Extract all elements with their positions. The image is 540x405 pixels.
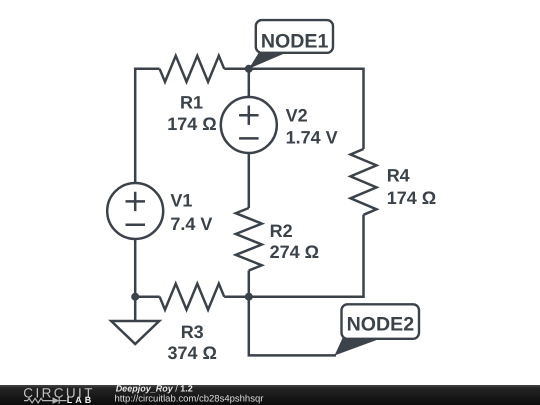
net flag NODE2 tail	[335, 336, 379, 356]
resistor R2	[236, 208, 262, 271]
wire top right (NODE1 to R4 top)	[249, 69, 364, 149]
V1 minus sign	[126, 223, 146, 226]
wire left vertical (top-left corner down to V1 top)	[135, 69, 159, 183]
wire R2 bottom to node NODE2	[248, 271, 251, 297]
svg-text:R1: R1	[180, 92, 203, 112]
wire R3 to node NODE2	[224, 295, 249, 298]
svg-text:7.4 V: 7.4 V	[170, 214, 212, 234]
wire bottom right (R4 bottom to NODE2)	[249, 215, 364, 297]
svg-text:V1: V1	[170, 191, 192, 211]
svg-text:174 Ω: 174 Ω	[387, 188, 436, 208]
svg-text:174 Ω: 174 Ω	[167, 114, 216, 134]
wire NODE1 to V2 top	[248, 69, 251, 97]
voltage source V2 circle	[221, 97, 277, 153]
resistor R1	[160, 56, 225, 82]
V1 plus sign	[126, 192, 146, 211]
ground symbol	[111, 297, 159, 344]
node junction dot (ground / V1 / R3)	[131, 293, 139, 301]
net flag NODE1 box	[256, 20, 333, 53]
svg-text:R3: R3	[181, 322, 204, 342]
net flag NODE1 tail	[249, 52, 289, 69]
net flag NODE2 box	[342, 304, 420, 339]
node NODE2 junction dot	[245, 293, 253, 301]
footer logo resistor-diode symbol	[24, 397, 67, 403]
resistor R4	[351, 149, 377, 215]
voltage source V1 circle	[107, 183, 163, 239]
svg-text:Deepjoy_Roy / 1.2: Deepjoy_Roy / 1.2	[116, 384, 193, 394]
resistor R3	[160, 284, 225, 310]
svg-text:274 Ω: 274 Ω	[270, 242, 319, 262]
svg-text:http://circuitlab.com/cb28s4ps: http://circuitlab.com/cb28s4pshhsqr	[115, 394, 264, 405]
svg-text:NODE1: NODE1	[261, 30, 329, 52]
wire V1 bottom to ground node	[134, 239, 137, 297]
svg-text:R4: R4	[387, 166, 410, 186]
svg-text:LAB: LAB	[67, 395, 95, 405]
V2 plus sign	[239, 106, 259, 125]
svg-text:1.74 V: 1.74 V	[286, 128, 338, 148]
wire ground node to R3	[135, 295, 159, 298]
svg-text:NODE2: NODE2	[347, 313, 415, 335]
wire V2 bottom to R2 top	[248, 153, 251, 208]
svg-text:R2: R2	[270, 221, 293, 241]
wire R1 to node NODE1	[224, 68, 249, 71]
svg-text:V2: V2	[286, 106, 308, 126]
svg-text:374 Ω: 374 Ω	[167, 343, 216, 363]
V2 minus sign	[239, 137, 259, 140]
wire node NODE2 to NODE2 flag	[249, 297, 336, 356]
node NODE1 junction dot	[245, 65, 253, 73]
